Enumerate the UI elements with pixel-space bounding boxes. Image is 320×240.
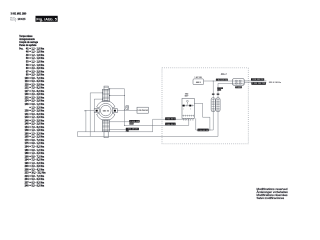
switch lower terminal row	[182, 115, 184, 117]
svg-text:Pos.: Pos.	[19, 47, 23, 50]
wire field tap	[109, 95, 124, 97]
svg-text:Stand: Stand	[10, 19, 15, 22]
svg-text:1 604 460 292: 1 604 460 292	[252, 79, 264, 81]
contact label 1 604 448	[217, 87, 223, 89]
supply cord wires	[244, 80, 266, 82]
svg-text:13 04 15: 13 04 15	[18, 18, 26, 21]
svg-text:003: 003	[130, 123, 134, 125]
armature M1	[101, 105, 112, 116]
field coil lower lamination stack	[103, 120, 110, 132]
svg-text:Couple de serrage: Couple de serrage	[19, 42, 38, 44]
svg-text:Fig. /Abb. 5: Fig. /Abb. 5	[36, 18, 57, 22]
switch S1	[182, 98, 194, 118]
wire connector to plug	[218, 82, 233, 84]
carbon brush left	[94, 109, 99, 113]
svg-text:Torque values: Torque values	[19, 36, 33, 38]
suppressor element	[126, 106, 129, 110]
wire brush right to label	[117, 110, 137, 112]
cable label 1 604 448 036	[198, 129, 209, 132]
stator pole shoe upper arc	[97, 101, 115, 108]
wire connector left leg	[212, 81, 214, 130]
connector contact marks	[212, 94, 215, 95]
svg-text:1 604 460 293: 1 604 460 293	[252, 83, 265, 85]
supply lead label 1 604 448 030	[216, 79, 228, 81]
svg-text:1 604 448 030: 1 604 448 030	[216, 79, 227, 81]
cable label 1 604 448 003	[129, 120, 139, 123]
figure label Fig./Abb. 5	[36, 16, 58, 22]
svg-text:2: 2	[190, 108, 191, 110]
svg-text:3 601 M01 1M0: 3 601 M01 1M0	[11, 13, 27, 16]
wire lower field to label A	[109, 121, 129, 123]
svg-text:1 604 460 3: 1 604 460 3	[166, 124, 176, 126]
wire connector to supply	[213, 81, 214, 82]
plug connector housing	[211, 98, 215, 112]
svg-text:Abb. 2: Abb. 2	[221, 73, 227, 76]
cable label 1 604 460 347	[165, 123, 175, 126]
stator pole shoe lower arc	[97, 113, 115, 120]
wire field tap left	[94, 98, 102, 100]
svg-text:601 10: 601 10	[103, 110, 110, 112]
field terminal nubs	[109, 88, 110, 89]
wire filter to plug	[204, 80, 233, 82]
armature part label 1 619 P06 163	[137, 107, 148, 113]
wire lower field to label B	[109, 128, 125, 130]
plug part label	[235, 86, 242, 88]
switch terminal row	[182, 105, 184, 107]
svg-text:Salvo modificaciones: Salvo modificaciones	[257, 196, 285, 200]
svg-text:448: 448	[217, 89, 221, 91]
svg-text:230 V~50 Hz: 230 V~50 Hz	[269, 82, 281, 84]
svg-text:1: 1	[183, 108, 184, 110]
cord label 1 604 460 293	[251, 82, 265, 84]
wire W2 to switch	[125, 124, 189, 126]
svg-text:7 601: 7 601	[236, 87, 242, 89]
svg-text:1 2 3 4 5: 1 2 3 4 5	[183, 120, 194, 122]
wire switch to connector loop	[194, 102, 202, 104]
carbon brush right	[112, 109, 117, 113]
svg-text:660 8: 660 8	[196, 82, 201, 84]
wire riser to switch feed	[152, 119, 154, 132]
cable label 1 604 448 035	[126, 128, 139, 130]
mains plug X1	[233, 80, 245, 82]
svg-text:1 604 460 2: 1 604 460 2	[166, 119, 176, 121]
wire brush left	[85, 110, 94, 112]
svg-text:1 619 P06 163: 1 619 P06 163	[137, 110, 148, 112]
handle enclosure dashed outline	[162, 68, 248, 144]
svg-text:5,3 - 6,3 Nm: 5,3 - 6,3 Nm	[32, 185, 45, 188]
wire W1 to switch	[153, 118, 187, 120]
wire connector right leg to bottom bus	[217, 83, 219, 136]
cable label 1 604 460 255	[165, 117, 175, 120]
cord label 1 604 460 292	[251, 78, 264, 80]
wire switch bottom loop	[195, 118, 197, 130]
wire field top left	[90, 92, 102, 94]
field coil upper lamination stack	[104, 86, 108, 89]
svg-text:1 604 448 036: 1 604 448 036	[198, 130, 209, 132]
svg-text:Anzugsmomente: Anzugsmomente	[19, 38, 35, 41]
wire bus lower left	[77, 131, 152, 133]
wire field top to suppressor	[109, 88, 124, 90]
svg-text:B477: B477	[185, 95, 189, 98]
suppression filter 660 8	[193, 79, 204, 85]
